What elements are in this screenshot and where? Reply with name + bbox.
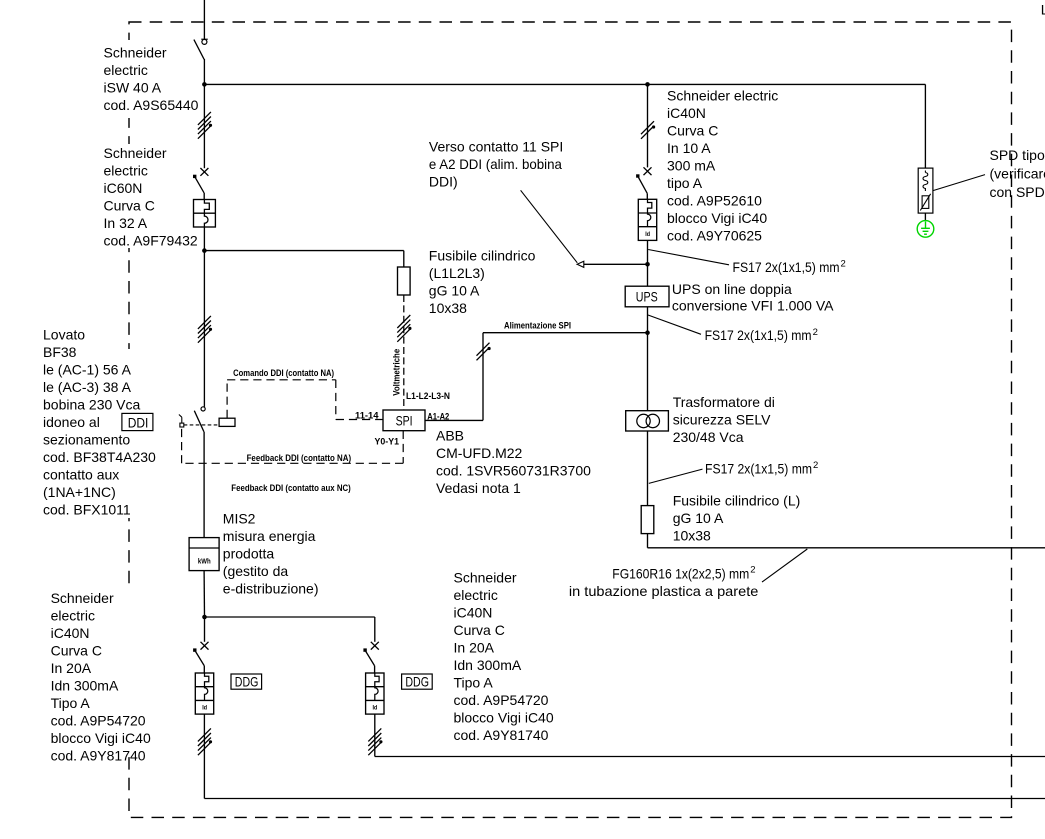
dashed control: coil to Comando line — [226, 380, 228, 418]
svg-text:electric: electric — [51, 608, 95, 624]
svg-text:iC40N: iC40N — [454, 605, 493, 621]
wire: blade to DDG1 box — [203, 666, 205, 673]
svg-text:Trasformatore di: Trasformatore di — [673, 394, 775, 410]
wire: bus to breaker Q2 — [203, 84, 205, 168]
svg-text:prodotta: prodotta — [223, 545, 275, 561]
svg-text:DDI: DDI — [128, 414, 149, 430]
svg-text:Idn 300mA: Idn 300mA — [51, 678, 119, 694]
svg-text:2: 2 — [841, 258, 846, 269]
svg-text:blocco Vigi iC40: blocco Vigi iC40 — [51, 730, 151, 746]
svg-text:300 mA: 300 mA — [667, 158, 716, 174]
label box DDG1 — [231, 674, 262, 689]
svg-text:Idn 300mA: Idn 300mA — [454, 657, 522, 673]
svg-text:FS17 2x(1x1,5) mm: FS17 2x(1x1,5) mm — [705, 461, 812, 477]
wire: SPI A1-A2 to riser — [425, 419, 483, 421]
transformer T1 SELV box — [626, 411, 669, 431]
wire: top horizontal bus — [204, 83, 925, 85]
svg-text:kWh: kWh — [198, 557, 211, 566]
wire: T1 to fuse F2 — [647, 431, 649, 506]
wire: DDG2 box down — [374, 714, 376, 756]
fuse F1 cylindrical L1L2L3 — [398, 267, 411, 295]
SPD spark gap zigzag — [923, 171, 928, 192]
svg-text:electric: electric — [454, 587, 498, 603]
svg-text:CM-UFD.M22: CM-UFD.M22 — [436, 445, 523, 461]
wire: Q2 to node B — [203, 227, 205, 251]
wire: node B down to contactor DDI — [203, 251, 205, 407]
conductor marks (DDG2) — [368, 728, 381, 741]
svg-text:(1NA+1NC): (1NA+1NC) — [43, 484, 116, 500]
node D junction dot — [645, 262, 650, 267]
svg-text:contatto aux: contatto aux — [43, 467, 119, 483]
svg-text:DDG: DDG — [235, 673, 259, 689]
dashed control: SPI Y0-Y1 down — [402, 431, 404, 464]
svg-text:In 32 A: In 32 A — [104, 215, 148, 231]
node junction dot (bus/right branch) — [645, 82, 650, 87]
contactor DDI actuation dashed link — [184, 424, 219, 426]
svg-text:Id: Id — [202, 705, 207, 712]
energy meter MIS2 kWh box — [189, 538, 219, 571]
svg-text:Schneider: Schneider — [51, 590, 114, 606]
svg-text:2: 2 — [750, 565, 755, 576]
wire: UPS to node E — [647, 307, 649, 411]
wire: F2 down — [647, 534, 649, 548]
svg-text:Y0-Y1: Y0-Y1 — [375, 436, 400, 447]
earth electrode symbol (green) — [917, 221, 934, 238]
wire: Q3 to UPS — [647, 240, 649, 286]
svg-text:gG 10 A: gG 10 A — [673, 510, 724, 526]
wire: node D to arrow — [584, 263, 648, 265]
wire: alimentazione SPI horizontal — [483, 332, 648, 334]
SPD varistor — [922, 196, 929, 209]
svg-text:in tubazione plastica a parete: in tubazione plastica a parete — [569, 583, 759, 599]
svg-text:10x38: 10x38 — [673, 528, 711, 544]
leader: FG160R16 cable — [762, 549, 807, 582]
svg-text:cod. A9P52610: cod. A9P52610 — [667, 193, 762, 209]
svg-text:Curva C: Curva C — [51, 643, 102, 659]
svg-text:blocco Vigi iC40: blocco Vigi iC40 — [454, 710, 554, 726]
svg-text:BF38: BF38 — [43, 344, 77, 360]
svg-text:In 10 A: In 10 A — [667, 140, 711, 156]
svg-text:iSW 40 A: iSW 40 A — [104, 80, 162, 96]
svg-text:electric: electric — [104, 62, 148, 78]
leader: FS17 (1) — [648, 250, 729, 265]
wire: blade to DDG2 box — [374, 666, 376, 673]
node C junction dot — [202, 615, 207, 620]
node E junction dot — [645, 330, 650, 335]
svg-text:iC60N: iC60N — [104, 180, 143, 196]
svg-text:conversione VFI 1.000 VA: conversione VFI 1.000 VA — [672, 298, 834, 314]
svg-text:DDI): DDI) — [429, 173, 458, 189]
svg-text:10x38: 10x38 — [429, 300, 467, 316]
wire: right branch from bus — [647, 84, 649, 167]
breaker Q2 iC60N contact — [200, 168, 208, 176]
svg-text:Fusibile cilindrico (L): Fusibile cilindrico (L) — [673, 493, 801, 509]
wire: node C to left DDG — [204, 617, 206, 642]
SPD box — [918, 168, 933, 213]
svg-text:cod. A9P54720: cod. A9P54720 — [51, 713, 146, 729]
svg-text:11-14: 11-14 — [355, 411, 379, 422]
svg-text:Fusibile cilindrico: Fusibile cilindrico — [429, 247, 536, 263]
conductor marks 3P+N (left branch) — [198, 112, 211, 125]
breaker DDG1 contact — [201, 642, 209, 650]
open arrow to Verso contatto note — [577, 261, 584, 267]
svg-text:Tipo A: Tipo A — [51, 695, 91, 711]
wire: node C to right DDG branch — [205, 616, 375, 618]
relay SPI box — [383, 410, 425, 431]
svg-text:FG160R16 1x(2x2,5) mm: FG160R16 1x(2x2,5) mm — [612, 565, 749, 581]
conductor marks (voltmetric) — [397, 315, 410, 328]
svg-text:In 20A: In 20A — [51, 660, 92, 676]
svg-text:gG 10 A: gG 10 A — [429, 282, 480, 298]
svg-text:230/48 Vca: 230/48 Vca — [673, 429, 744, 445]
wire: DDG2 horizontal out — [375, 756, 1045, 758]
svg-text:Schneider: Schneider — [104, 145, 167, 161]
node B junction dot — [202, 248, 207, 253]
svg-text:Schneider: Schneider — [104, 45, 167, 61]
svg-text:con SPD interno): con SPD interno) — [990, 184, 1045, 200]
wire: contactor to energy meter — [203, 432, 205, 538]
svg-text:le (AC-3) 38 A: le (AC-3) 38 A — [43, 379, 132, 395]
dashed control: feedback up to aux — [181, 427, 183, 463]
disconnector Q1 iSW 40A: contact circle — [202, 39, 207, 44]
svg-text:iC40N: iC40N — [51, 625, 90, 641]
svg-text:tipo A: tipo A — [667, 175, 703, 191]
svg-text:e A2 DDI (alim. bobina: e A2 DDI (alim. bobina — [429, 156, 562, 172]
svg-text:Curva C: Curva C — [667, 123, 718, 139]
wire: bus to SPD — [924, 84, 926, 168]
svg-text:MIS2: MIS2 — [223, 510, 256, 526]
dashed wire: voltmetric lines — [403, 295, 405, 410]
conductor marks 3P+N (below node B) — [198, 316, 211, 329]
wire: blade to Q3 box — [646, 193, 648, 199]
transformer T1 windings — [637, 414, 650, 427]
contactor DDI coil — [219, 418, 235, 426]
svg-text:cod. A9Y81740: cod. A9Y81740 — [454, 727, 549, 743]
svg-text:LINEA: LINEA — [1041, 1, 1045, 17]
svg-text:Tipo A: Tipo A — [454, 675, 494, 691]
breaker DDG1 box with Vigi — [195, 673, 213, 714]
wire: node B to fuse branch — [204, 250, 403, 252]
wire: blade to Q2 box — [203, 193, 205, 200]
svg-text:Id: Id — [373, 705, 378, 712]
svg-text:e-distribuzione): e-distribuzione) — [223, 580, 319, 596]
svg-text:electric: electric — [104, 162, 148, 178]
svg-text:FS17 2x(1x1,5) mm: FS17 2x(1x1,5) mm — [733, 259, 840, 275]
svg-text:cod. A9Y81740: cod. A9Y81740 — [51, 748, 146, 764]
wire: meter to node C — [203, 571, 205, 617]
contactor DDI blade — [194, 411, 204, 432]
wire: DDG1 bottom horizontal out — [204, 798, 1045, 800]
svg-text:DDG: DDG — [405, 673, 429, 689]
svg-text:blocco Vigi iC40: blocco Vigi iC40 — [667, 210, 767, 226]
label box DDG2 — [402, 674, 433, 689]
conductor marks (DDG1) — [198, 728, 211, 741]
svg-text:Curva C: Curva C — [104, 197, 155, 213]
breaker Q3 iC40N contact — [644, 167, 652, 175]
svg-text:cod. A9S65440: cod. A9S65440 — [104, 97, 199, 113]
conductor marks 2 (right branch) — [641, 121, 654, 134]
svg-text:le (AC-1) 56 A: le (AC-1) 56 A — [43, 362, 132, 378]
dashed control: feedback horizontal — [182, 462, 404, 464]
dashed control: Comando to SPI 11-14 — [336, 419, 383, 421]
svg-text:SPI: SPI — [396, 413, 413, 429]
svg-text:(verificare prot.: (verificare prot. — [990, 165, 1045, 181]
svg-text:Feedback DDI (contatto NA): Feedback DDI (contatto NA) — [247, 453, 352, 464]
svg-text:cod. A9F79432: cod. A9F79432 — [104, 232, 198, 248]
leader: FS17 (3) — [649, 469, 703, 483]
leader: verso contatto diagonal — [521, 190, 578, 262]
contactor DDI: fixed contact circle — [201, 407, 205, 411]
leader: FS17 (2) — [648, 315, 701, 334]
leader: SPD note — [933, 175, 985, 191]
svg-text:Voltmetriche: Voltmetriche — [392, 349, 403, 396]
svg-text:Id: Id — [645, 231, 650, 238]
dashed control: Comando horizontal — [227, 379, 336, 381]
svg-text:Curva C: Curva C — [454, 622, 505, 638]
svg-text:cod. BFX1011: cod. BFX1011 — [43, 502, 131, 518]
svg-text:misura energia: misura energia — [223, 528, 316, 544]
svg-text:2: 2 — [813, 460, 818, 471]
svg-text:idoneo al: idoneo al — [43, 414, 100, 430]
svg-text:Schneider: Schneider — [454, 570, 517, 586]
wire: SPD to earth — [924, 213, 926, 221]
svg-text:iC40N: iC40N — [667, 105, 706, 121]
svg-text:SPD tipo 2: SPD tipo 2 — [990, 147, 1045, 163]
svg-text:Verso contatto 11 SPI: Verso contatto 11 SPI — [429, 138, 563, 154]
UPS box — [625, 286, 669, 307]
svg-text:UPS: UPS — [636, 289, 658, 305]
svg-text:cod. A9P54720: cod. A9P54720 — [454, 692, 549, 708]
svg-text:cod. BF38T4A230: cod. BF38T4A230 — [43, 449, 156, 465]
node A junction dot — [202, 82, 207, 87]
svg-text:(gestito da: (gestito da — [223, 563, 289, 579]
svg-text:(L1L2L3): (L1L2L3) — [429, 265, 485, 281]
svg-text:2: 2 — [813, 327, 818, 338]
svg-text:UPS on line doppia: UPS on line doppia — [672, 281, 792, 297]
svg-text:Vedasi nota 1: Vedasi nota 1 — [436, 480, 521, 496]
wire: DDG1 box down — [203, 714, 205, 798]
disconnector Q1 blade — [194, 40, 204, 60]
svg-text:ABB: ABB — [436, 427, 464, 443]
breaker Q2 iC60N box — [194, 200, 216, 228]
svg-text:Alimentazione SPI: Alimentazione SPI — [504, 320, 571, 331]
svg-text:L1-L2-L3-N: L1-L2-L3-N — [406, 391, 450, 402]
fuse F2 cylindrical (L) — [641, 506, 654, 534]
svg-text:sicurezza SELV: sicurezza SELV — [673, 411, 771, 427]
breaker DDG2 contact — [371, 642, 379, 650]
svg-text:Schneider electric: Schneider electric — [667, 88, 778, 104]
svg-text:FS17 2x(1x1,5) mm: FS17 2x(1x1,5) mm — [705, 327, 812, 343]
wire: SPI riser up — [482, 333, 484, 421]
breaker Q3 box with Vigi — [638, 199, 656, 240]
contactor DDI aux contact square — [180, 423, 184, 427]
svg-text:bobina 230 Vca: bobina 230 Vca — [43, 397, 141, 413]
conductor marks (SPI supply) — [477, 343, 490, 356]
svg-text:cod. 1SVR560731R3700: cod. 1SVR560731R3700 — [436, 462, 591, 478]
svg-text:Comando DDI (contatto NA): Comando DDI (contatto NA) — [233, 368, 334, 379]
label box DDI — [122, 413, 153, 430]
wire: FG160R16 horizontal out — [648, 547, 1045, 549]
svg-text:cod. A9Y70625: cod. A9Y70625 — [667, 228, 762, 244]
breaker DDG2 box with Vigi — [366, 673, 384, 714]
svg-text:sezionamento: sezionamento — [43, 432, 130, 448]
wire: Q1 to bus node — [203, 59, 205, 84]
svg-text:In 20A: In 20A — [454, 640, 495, 656]
dashed control: Comando down — [335, 380, 337, 420]
svg-text:Lovato: Lovato — [43, 327, 85, 343]
wire: incoming supply from top — [203, 0, 205, 39]
svg-text:Feedback DDI (contatto aux NC): Feedback DDI (contatto aux NC) — [231, 483, 350, 494]
